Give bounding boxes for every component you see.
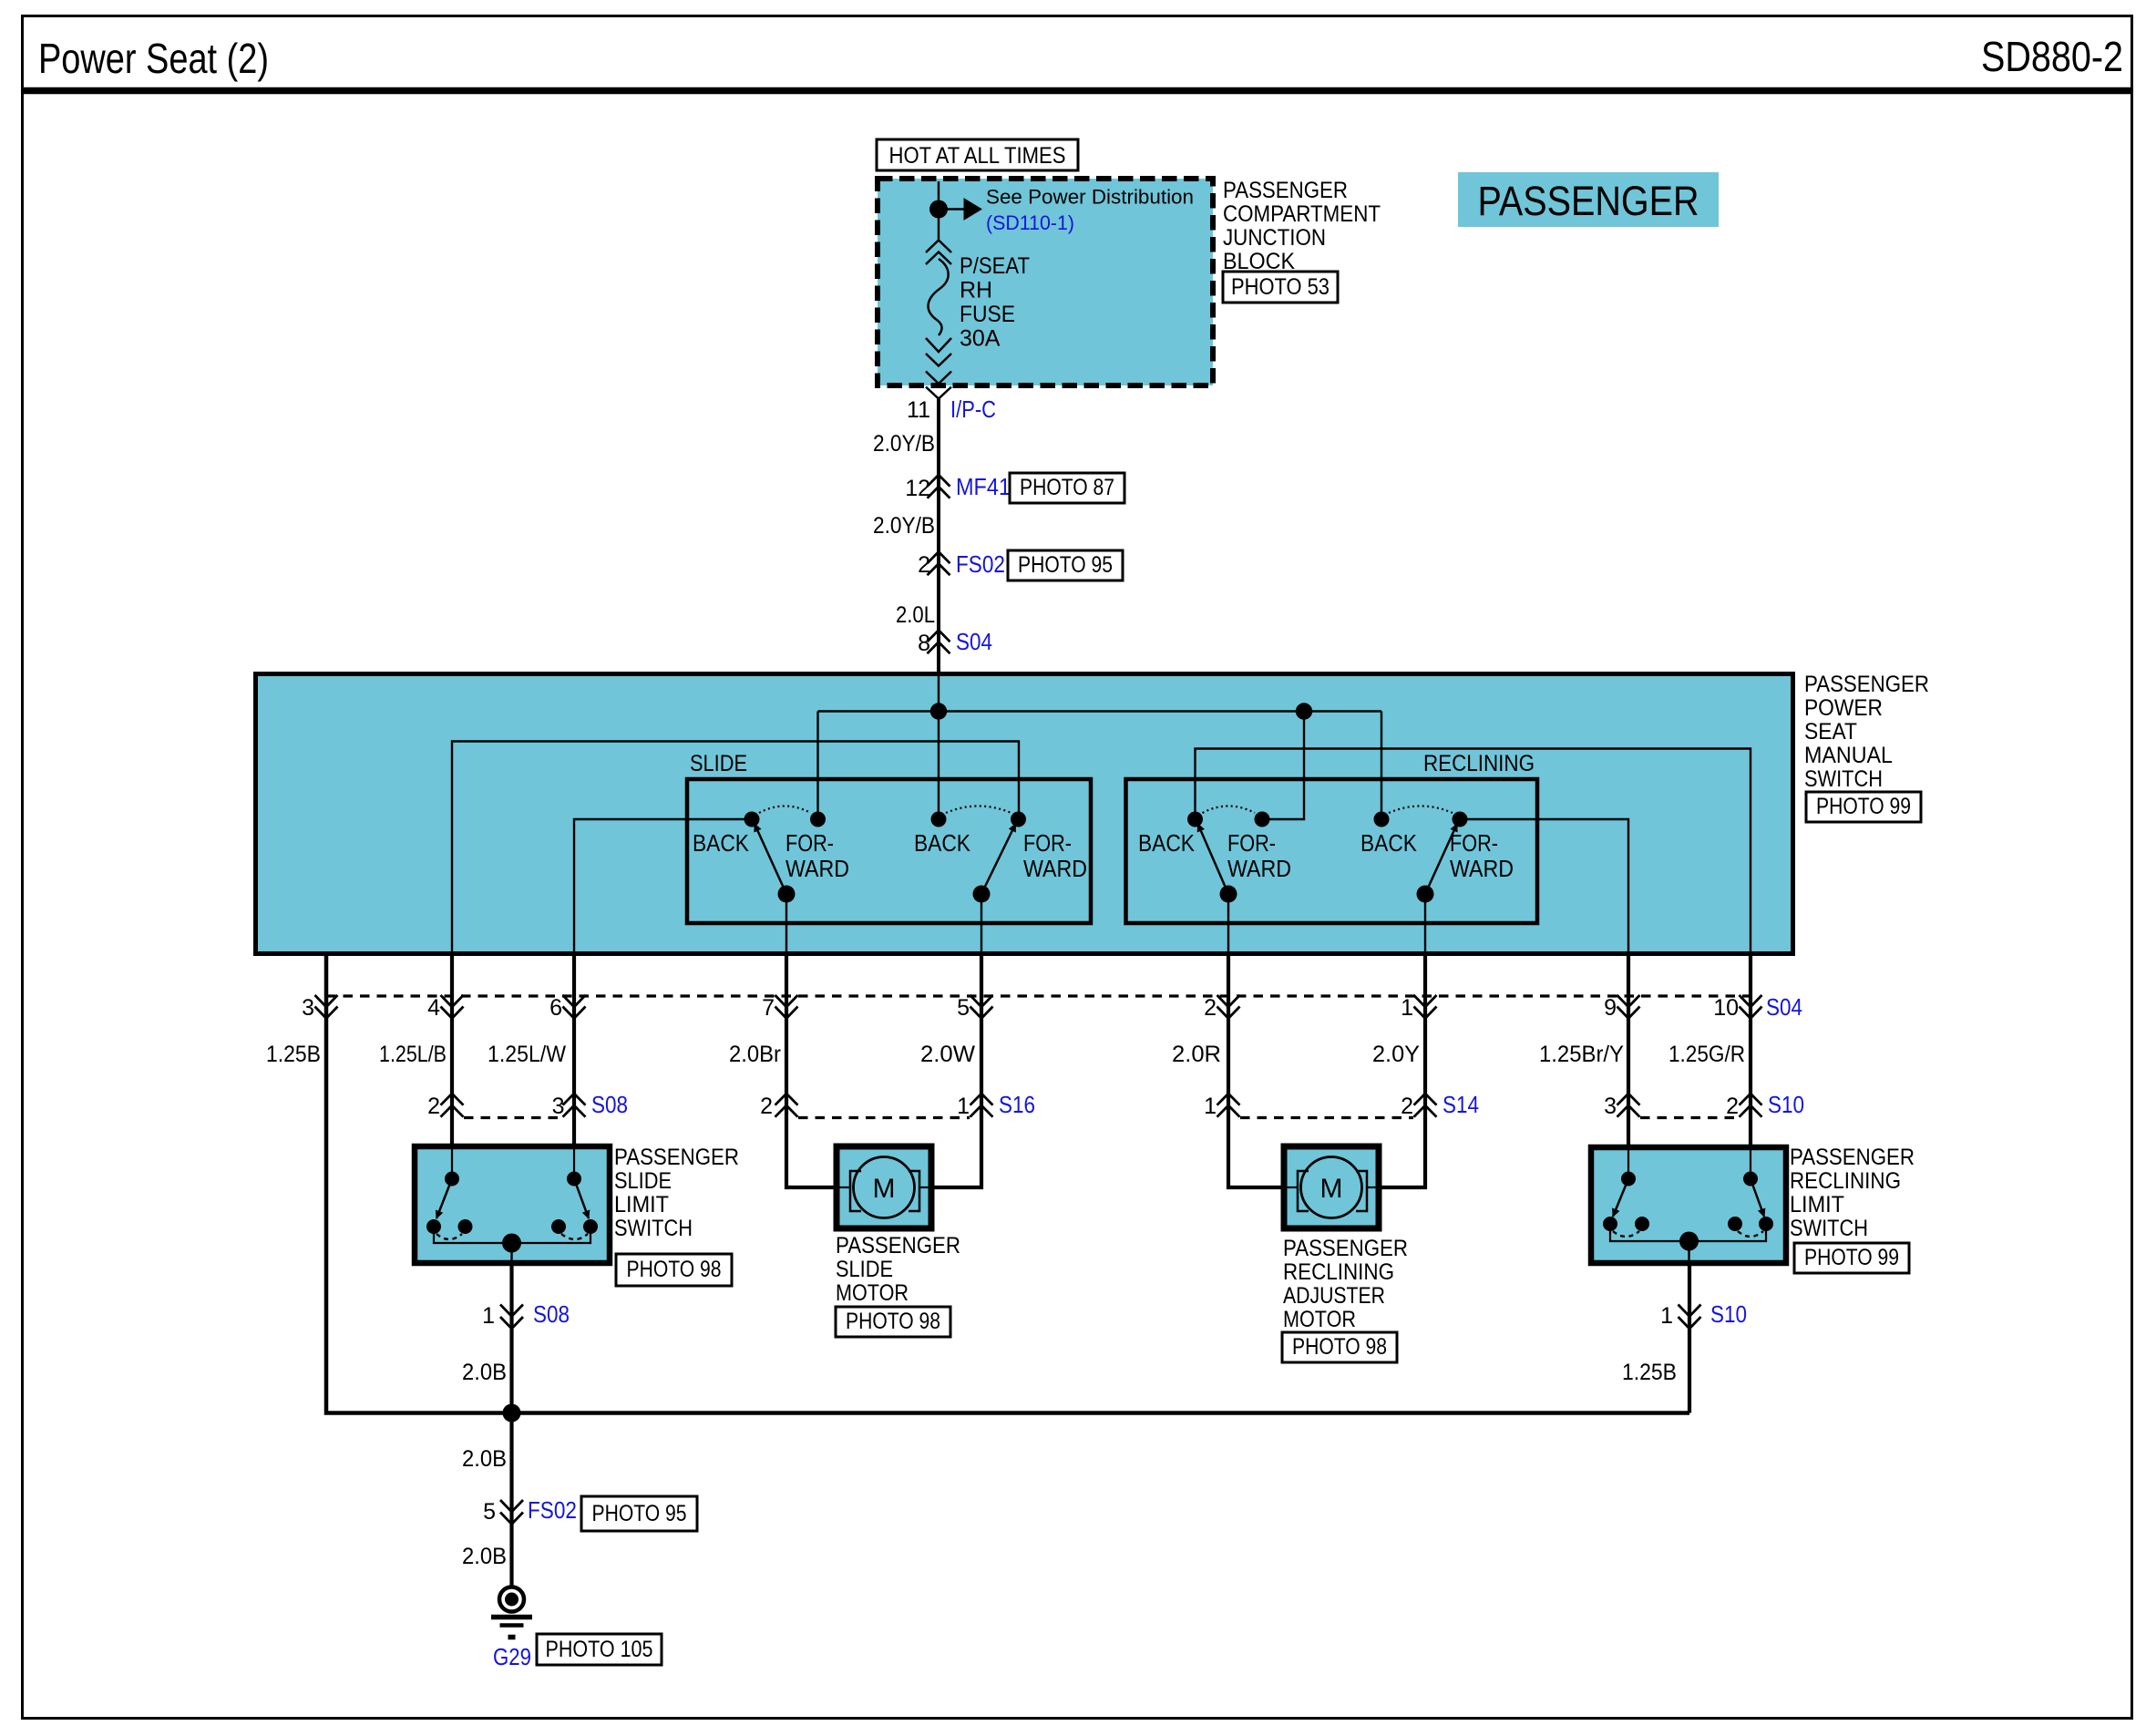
svg-text:P/SEAT: P/SEAT (960, 253, 1030, 279)
svg-text:See Power Distribution: See Power Distribution (986, 186, 1194, 209)
svg-text:4: 4 (427, 995, 440, 1021)
switch reclining 2 throw arc (1389, 806, 1453, 814)
wire: rail A to reclining back contact (1381, 712, 1382, 820)
svg-text:FS02: FS02 (528, 1496, 577, 1524)
limit sw2 right arm (1751, 1179, 1764, 1217)
limit sw2 common bus (1610, 1224, 1766, 1241)
switch reclining 2 contacts (1374, 812, 1390, 827)
switch pin 7 connector (775, 995, 798, 1007)
svg-text:PHOTO 95: PHOTO 95 (592, 1501, 687, 1526)
limit sw1 left arc (436, 1234, 462, 1239)
svg-text:2.0Y/B: 2.0Y/B (873, 431, 935, 457)
connector pin 2 (1414, 1094, 1437, 1105)
wire pin 1 to reclining motor (1380, 955, 1425, 1187)
power tag HOT AT ALL TIMES (877, 139, 1078, 170)
wire pin 2 to reclining motor (1228, 955, 1282, 1187)
limit sw1 right arm (574, 1179, 589, 1219)
wire pin 10 (1749, 955, 1752, 1148)
wire: supply rail A (818, 710, 1382, 712)
connector pin 2 (1740, 1094, 1762, 1105)
limit sw1 common bus (434, 1227, 590, 1243)
switch reclining 1 arm (1198, 824, 1229, 894)
switch slide 1 arm (755, 824, 786, 894)
limit sw1 left: top contact (451, 1149, 453, 1177)
svg-text:I/P-C: I/P-C (950, 395, 996, 423)
photo ref PHOTO 95 (581, 1496, 697, 1531)
limit sw1 left arm (436, 1179, 452, 1219)
svg-text:1.25G/R: 1.25G/R (1669, 1042, 1745, 1067)
connector pin 2 (441, 1094, 464, 1105)
svg-text:WARD: WARD (785, 855, 849, 882)
svg-text:SLIDE: SLIDE (836, 1257, 893, 1282)
svg-text:7: 7 (762, 995, 775, 1021)
switch box: passenger power seat manual switch (256, 674, 1793, 954)
connector pin 1 (1217, 1094, 1240, 1105)
svg-text:2.0W: 2.0W (920, 1042, 975, 1067)
motor M circle (854, 1157, 915, 1218)
switch pin 9 connector (1617, 995, 1640, 1007)
node on rail A (930, 703, 947, 719)
svg-text:JUNCTION: JUNCTION (1223, 225, 1326, 251)
svg-text:MF41: MF41 (956, 473, 1011, 500)
wire pin 9 (1627, 955, 1630, 1148)
svg-text:LIMIT: LIMIT (1790, 1192, 1844, 1217)
motor brackets (1298, 1171, 1309, 1211)
svg-text:FUSE: FUSE (960, 302, 1015, 327)
svg-text:3: 3 (552, 1094, 565, 1119)
motor terminal stubs (838, 1186, 850, 1188)
svg-text:HOT AT ALL TIMES: HOT AT ALL TIMES (889, 143, 1066, 169)
wire: reclining back to rail C to pin 10 (1196, 749, 1751, 954)
svg-text:2.0Y/B: 2.0Y/B (873, 513, 935, 539)
svg-text:SEAT: SEAT (1804, 719, 1857, 745)
svg-text:FOR-: FOR- (1227, 829, 1276, 857)
wire: slide back contact to pin 6 (574, 819, 752, 953)
svg-text:PHOTO 87: PHOTO 87 (1020, 475, 1114, 500)
svg-text:PHOTO 53: PHOTO 53 (1231, 274, 1330, 300)
svg-text:POWER: POWER (1804, 695, 1883, 721)
connector pin 2 (775, 1094, 798, 1105)
connector S04 pin 8 (928, 631, 950, 642)
svg-text:S04: S04 (956, 628, 992, 655)
node on rail A right (1296, 703, 1312, 719)
svg-text:2: 2 (427, 1094, 440, 1119)
svg-text:SLIDE: SLIDE (690, 751, 747, 776)
svg-text:2.0B: 2.0B (462, 1446, 507, 1472)
wire pin 4 (450, 955, 454, 1147)
photo ref PHOTO 87 (1010, 473, 1124, 503)
svg-text:RECLINING: RECLINING (1423, 751, 1535, 776)
svg-text:MANUAL: MANUAL (1804, 743, 1893, 768)
svg-text:6: 6 (549, 995, 562, 1021)
svg-text:Power Seat (2): Power Seat (2) (38, 35, 269, 82)
svg-text:SWITCH: SWITCH (1804, 766, 1883, 792)
svg-text:3: 3 (302, 995, 314, 1021)
svg-text:PASSENGER: PASSENGER (836, 1233, 960, 1258)
connector boundary dashed line (326, 994, 1751, 997)
box: passenger reclining limit switch (1591, 1147, 1786, 1263)
svg-text:G29: G29 (493, 1643, 531, 1670)
svg-text:COMPARTMENT: COMPARTMENT (1223, 201, 1381, 227)
svg-text:12: 12 (905, 476, 930, 501)
svg-text:PASSENGER: PASSENGER (1804, 672, 1929, 697)
svg-text:1: 1 (1401, 995, 1413, 1021)
wire: fuse output to switch (926, 387, 951, 399)
photo ref PHOTO 99 (1794, 1243, 1909, 1273)
svg-text:LIMIT: LIMIT (614, 1192, 669, 1217)
arrow to See Power Distribution (939, 208, 964, 210)
svg-text:1.25B: 1.25B (266, 1042, 321, 1067)
wire pin 5 to slide motor (933, 955, 981, 1187)
wire: rail A to slide forward contact (816, 712, 818, 820)
switch slide 1 contacts (744, 812, 760, 827)
svg-text:S08: S08 (533, 1300, 570, 1328)
svg-text:(SD110-1): (SD110-1) (986, 211, 1074, 234)
photo ref PHOTO 99 (1806, 792, 1921, 822)
svg-text:PASSENGER: PASSENGER (614, 1145, 739, 1170)
connector FS02 pin 5 (500, 1500, 523, 1512)
motor terminal stubs (1286, 1186, 1298, 1188)
limit sw2 right: top contact (1750, 1150, 1751, 1177)
connector pin 3 (563, 1094, 586, 1105)
svg-text:PHOTO 98: PHOTO 98 (627, 1257, 722, 1282)
svg-text:PASSENGER: PASSENGER (1790, 1145, 1915, 1170)
photo ref PHOTO 105 (537, 1634, 662, 1665)
svg-text:1: 1 (1660, 1303, 1673, 1329)
svg-text:S10: S10 (1710, 1300, 1747, 1328)
svg-text:PASSENGER: PASSENGER (1478, 178, 1699, 224)
svg-text:S10: S10 (1768, 1091, 1804, 1118)
svg-text:PHOTO 98: PHOTO 98 (846, 1309, 940, 1334)
svg-text:WARD: WARD (1227, 855, 1291, 882)
svg-text:2: 2 (1401, 1094, 1413, 1119)
switch reclining 2 arm (1425, 824, 1457, 894)
svg-text:RECLINING: RECLINING (1283, 1259, 1394, 1285)
svg-text:2: 2 (1204, 995, 1217, 1021)
limit sw1 right arc (561, 1234, 588, 1239)
svg-text:30A: 30A (960, 326, 1001, 352)
wire: reclining common 1 to pin 2 (1227, 894, 1229, 953)
wire: slide common 1 to pin 7 (785, 894, 787, 953)
box: passenger slide motor (837, 1146, 931, 1228)
limit sw2 left lower contacts (1603, 1217, 1617, 1231)
svg-text:S16: S16 (999, 1091, 1035, 1118)
wire: slide limit common to ground bus (509, 1261, 513, 1586)
wire: reclining forward 2 to pin 9 (1460, 819, 1628, 953)
svg-text:5: 5 (957, 995, 970, 1021)
banner PASSENGER (1458, 172, 1719, 227)
switch reclining 1 contacts (1187, 812, 1203, 827)
connector pin 1 (970, 1094, 993, 1105)
svg-text:2.0B: 2.0B (462, 1360, 507, 1385)
switch pin 2 connector (1217, 995, 1240, 1007)
svg-text:2: 2 (918, 552, 930, 578)
switch pin 5 connector (970, 995, 993, 1007)
svg-text:MOTOR: MOTOR (836, 1280, 909, 1306)
svg-text:2: 2 (760, 1094, 773, 1119)
motor M circle (1301, 1157, 1362, 1218)
svg-text:5: 5 (483, 1499, 496, 1525)
svg-text:10: 10 (1713, 995, 1739, 1021)
photo ref PHOTO 98 (836, 1307, 950, 1337)
svg-text:2.0R: 2.0R (1172, 1042, 1221, 1067)
svg-text:1.25L/B: 1.25L/B (379, 1042, 447, 1067)
box: passenger reclining adjuster motor (1284, 1146, 1379, 1228)
connector MF41 pin 12 (928, 475, 950, 487)
switch pin 1 connector (1414, 995, 1437, 1007)
wire: reclining common 2 to pin 1 (1424, 894, 1426, 953)
svg-text:FOR-: FOR- (1023, 829, 1072, 857)
svg-text:2.0B: 2.0B (462, 1544, 507, 1569)
svg-text:MOTOR: MOTOR (1283, 1307, 1356, 1332)
wire: reclining limit common down (1688, 1261, 1691, 1413)
limit sw2 right arc (1738, 1231, 1763, 1237)
switch pin 6 connector (563, 995, 586, 1007)
photo ref PHOTO 53 (1223, 272, 1338, 303)
switch slide 2 arm (981, 824, 1016, 894)
svg-text:2.0Y: 2.0Y (1372, 1042, 1420, 1067)
photo ref PHOTO 95 (1008, 550, 1123, 580)
svg-text:SLIDE: SLIDE (614, 1168, 672, 1194)
svg-text:PASSENGER: PASSENGER (1283, 1236, 1408, 1261)
switch slide 2 contacts (931, 812, 947, 827)
svg-text:SWITCH: SWITCH (1790, 1216, 1868, 1241)
svg-text:1: 1 (1204, 1094, 1217, 1119)
connector dashed links (464, 1116, 562, 1119)
ground symbol G29 (499, 1587, 524, 1612)
svg-text:1.25B: 1.25B (1622, 1360, 1677, 1385)
connector FS02 pin 2 (928, 552, 950, 564)
svg-text:BACK: BACK (693, 829, 750, 857)
svg-text:2.0L: 2.0L (896, 602, 935, 628)
SLIDE sub-box (687, 779, 1091, 923)
node bottom bus junction (503, 1404, 521, 1423)
svg-text:PHOTO 99: PHOTO 99 (1804, 1245, 1899, 1270)
svg-text:2.0Br: 2.0Br (729, 1042, 781, 1067)
limit sw1 right lower contacts (551, 1219, 566, 1234)
svg-text:WARD: WARD (1023, 855, 1087, 882)
node: power distribution tap (929, 200, 948, 219)
svg-text:3: 3 (1604, 1094, 1617, 1119)
wire: feed into switch (938, 676, 940, 712)
svg-text:ADJUSTER: ADJUSTER (1283, 1283, 1385, 1309)
wire: rail A to reclining forward contact (1267, 712, 1304, 820)
svg-text:1.25L/W: 1.25L/W (488, 1042, 566, 1067)
svg-text:11: 11 (907, 397, 930, 423)
svg-text:PHOTO 99: PHOTO 99 (1816, 794, 1911, 819)
wire pin 6 (572, 955, 576, 1147)
svg-text:PASSENGER: PASSENGER (1223, 178, 1348, 203)
limit sw2 left: top contact (1627, 1150, 1629, 1177)
limit sw2 left arm (1613, 1179, 1628, 1217)
switch pin 3 connector (315, 995, 338, 1007)
svg-text:FS02: FS02 (956, 550, 1005, 578)
svg-text:1: 1 (482, 1303, 495, 1329)
wire pin 3 (1.25B) (326, 955, 1689, 1413)
connector S10 pin 1 (1679, 1305, 1701, 1317)
svg-text:BACK: BACK (1138, 829, 1196, 857)
wire: pin 4 riser to rail B to slide forward 2 (452, 742, 1019, 954)
switch reclining 1 throw arc (1203, 806, 1256, 814)
svg-text:WARD: WARD (1450, 855, 1514, 882)
RECLINING sub-box (1126, 779, 1538, 923)
wire: rail A to slide back contact (938, 712, 940, 820)
svg-text:M: M (873, 1174, 896, 1204)
box: passenger slide limit switch (415, 1146, 610, 1263)
svg-text:2: 2 (1726, 1094, 1739, 1119)
svg-text:8: 8 (918, 631, 930, 656)
switch slide 2 throw arc (946, 806, 1011, 814)
svg-text:PHOTO 95: PHOTO 95 (1018, 552, 1113, 578)
limit sw1 left lower contacts (426, 1219, 441, 1234)
svg-text:FOR-: FOR- (1450, 829, 1498, 857)
switch slide 1 throw arc (759, 806, 811, 814)
limit sw1 right: top contact (573, 1149, 575, 1177)
svg-text:PHOTO 98: PHOTO 98 (1292, 1334, 1387, 1360)
svg-text:1: 1 (957, 1094, 970, 1119)
svg-text:9: 9 (1604, 995, 1617, 1021)
limit sw2 left arc (1613, 1231, 1639, 1237)
limit sw2 right lower contacts (1728, 1217, 1742, 1231)
svg-text:SD880-2: SD880-2 (1981, 33, 2123, 80)
photo ref PHOTO 98 (1282, 1332, 1397, 1362)
switch pin 4 connector (441, 995, 464, 1007)
svg-text:PHOTO 105: PHOTO 105 (546, 1637, 653, 1662)
fuse P/SEAT RH FUSE 30A (926, 241, 951, 253)
wire from top to fuse junction (938, 181, 940, 241)
svg-text:1.25Br/Y: 1.25Br/Y (1539, 1042, 1624, 1067)
svg-text:S14: S14 (1443, 1091, 1479, 1118)
svg-text:RH: RH (960, 278, 992, 303)
svg-text:BACK: BACK (914, 829, 971, 857)
title separator line (21, 87, 2133, 95)
junction block box (dashed) (878, 179, 1213, 385)
svg-text:BACK: BACK (1361, 829, 1418, 857)
wire: slide common 2 to pin 5 (981, 894, 982, 953)
motor brackets (850, 1171, 861, 1211)
svg-text:M: M (1320, 1174, 1343, 1204)
connector pin 3 (1617, 1094, 1640, 1105)
svg-text:S08: S08 (591, 1091, 628, 1118)
connector S08 pin 1 (500, 1305, 523, 1317)
svg-text:S04: S04 (1766, 993, 1802, 1021)
svg-text:RECLINING: RECLINING (1790, 1168, 1901, 1194)
photo ref PHOTO 98 (616, 1254, 732, 1286)
svg-text:SWITCH: SWITCH (614, 1216, 693, 1241)
svg-text:FOR-: FOR- (785, 829, 834, 857)
switch pin 10 connector (1740, 995, 1762, 1007)
wire pin 7 to slide motor (786, 955, 835, 1187)
